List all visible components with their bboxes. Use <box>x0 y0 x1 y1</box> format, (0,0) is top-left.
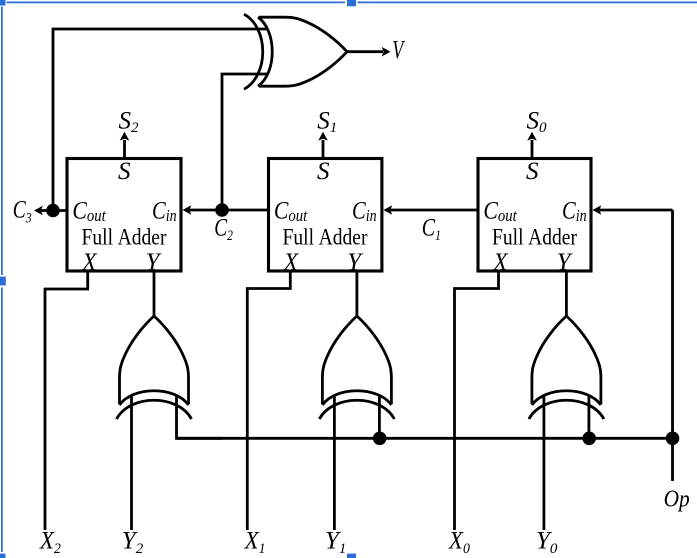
wire S0 output <box>531 140 534 159</box>
wire S1 output <box>322 140 325 159</box>
svg-text:S: S <box>118 158 131 185</box>
full adder U2 box <box>269 159 382 272</box>
svg-text:Full Adder: Full Adder <box>82 224 167 250</box>
wire C1 net: Cout U3 to Cin U2 <box>390 209 478 212</box>
wire C3 from Cout U1 to arrow <box>41 209 67 212</box>
arrowhead into Cin U3 <box>593 205 602 215</box>
arrowhead into Cin U2 <box>383 205 392 215</box>
selection handle bottom-middle <box>347 554 356 558</box>
wire X2 input <box>45 271 88 530</box>
wire Op vertical <box>671 210 674 481</box>
svg-text:S: S <box>526 158 539 185</box>
svg-text:V: V <box>392 35 405 64</box>
wire G1 output to Y U1 <box>153 271 156 316</box>
arrowhead into Cin U1 <box>183 205 192 215</box>
selection handle bottom-left <box>0 554 6 558</box>
arrowhead S0 <box>527 132 537 141</box>
selection frame left line <box>1 7 3 553</box>
selection frame top line <box>7 1 697 3</box>
full adder U1 box <box>67 159 181 272</box>
svg-text:X: X <box>81 248 97 276</box>
node C2 junction dot <box>215 203 229 217</box>
svg-text:X: X <box>492 248 508 276</box>
arrowhead S1 <box>318 132 328 141</box>
wire C2 net: Cout U2 to Cin U1 <box>190 209 269 212</box>
wire G3 output to Y U3 <box>565 271 568 316</box>
wire C2 vertical up to XOR V lower input <box>222 74 268 210</box>
xor gate G4 (overflow) <box>244 14 347 89</box>
wire G3 right input from bus <box>588 396 591 438</box>
node G3 bus junction dot <box>582 432 596 446</box>
xor gate G2 <box>319 316 394 419</box>
node Op junction dot <box>666 432 680 446</box>
xor gate G1 <box>117 316 192 419</box>
xor gate G3 <box>529 316 604 419</box>
node C3 junction dot <box>46 204 60 218</box>
wire C3 vertical up to XOR V <box>53 29 268 211</box>
wire G1 right input from bus <box>177 396 223 438</box>
wire Op bus horizontal <box>177 437 673 440</box>
wire S2 output <box>123 140 126 159</box>
wire G2 output to Y U2 <box>355 271 358 316</box>
arrowhead S2 <box>120 132 130 141</box>
selection handle top-left <box>0 0 6 6</box>
wire X0 input <box>455 271 499 530</box>
wire X1 input <box>247 271 290 530</box>
wire Op feed to Cin U3 <box>600 209 673 212</box>
selection handle left-middle <box>0 277 6 286</box>
wire Y0 input <box>543 396 546 530</box>
svg-text:S: S <box>317 158 330 185</box>
wire V output <box>347 50 383 53</box>
arrowhead C3 <box>34 206 43 216</box>
node G2 bus junction dot <box>373 432 387 446</box>
selection handle top-middle <box>347 0 356 6</box>
svg-text:Op: Op <box>664 485 690 511</box>
full adder U3 box <box>478 159 591 272</box>
svg-text:Full Adder: Full Adder <box>283 224 368 250</box>
wire Y2 input <box>130 396 133 530</box>
arrowhead V <box>382 47 391 57</box>
wire G2 right input from bus <box>378 396 381 438</box>
svg-text:Full Adder: Full Adder <box>492 224 577 250</box>
wire Y1 input <box>333 396 336 530</box>
